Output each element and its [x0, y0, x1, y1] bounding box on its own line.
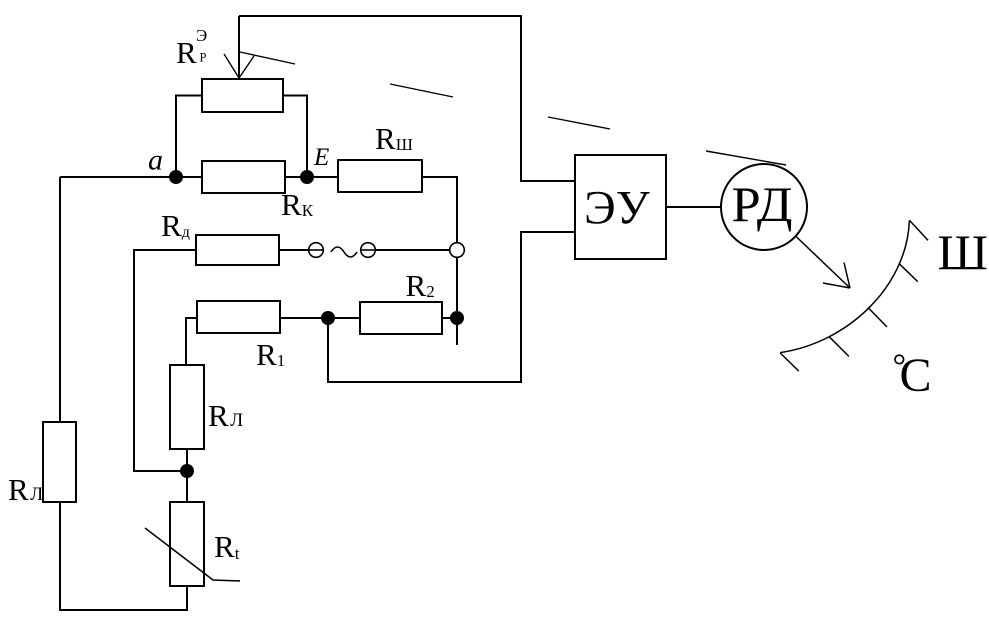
svg-text:RЛ: RЛ [8, 472, 43, 507]
svg-text:a: a [148, 144, 163, 177]
pointer arrow from RD to scale [795, 236, 850, 289]
wire: RP right lead to node E [283, 96, 307, 178]
wire: RL bottom to Rt top [186, 449, 188, 502]
AC source terminal circle 2 [361, 243, 376, 258]
wire: Rt bottom to left leg [60, 502, 187, 610]
wire: R1 left lead down to RL [186, 318, 197, 365]
wire: R1 right to junction [280, 317, 328, 319]
svg-text:Р: Р [200, 51, 207, 65]
node E junction dot [300, 170, 314, 184]
junction dot R1-R2 [321, 311, 335, 325]
wire: junction down and right to EU lower input [328, 232, 575, 382]
thermistor diagonal stroke [145, 528, 240, 581]
svg-text:RШ: RШ [375, 121, 413, 156]
wire: RSh right down to AC node [422, 177, 457, 243]
resistor RL (vertical) [170, 365, 204, 449]
resistor RP (potentiometer body) [202, 79, 283, 112]
scale arc of indicator [780, 220, 909, 352]
scale tick 3 [868, 308, 887, 328]
wire: wiper to EU upper input (top feedback) [239, 16, 575, 181]
AC source tilde [331, 247, 357, 257]
wire: bridge row left (node a) [60, 176, 202, 178]
svg-text:РД: РД [732, 176, 793, 232]
svg-text:R1: R1 [256, 337, 285, 372]
junction dot right of R2 [450, 311, 464, 325]
wire: AC source to node circle [375, 249, 449, 251]
svg-text:E: E [313, 144, 329, 171]
resistor Rt (thermistor body) [170, 502, 204, 586]
wiper arrow on potentiometer [224, 54, 254, 78]
svg-text:ЭУ: ЭУ [584, 182, 650, 235]
svg-text:Rt: Rt [214, 529, 240, 564]
AC source terminal circle 1 [309, 243, 324, 258]
resistor Rd [196, 235, 279, 265]
wire: left leg vertical from node a to RL2 [59, 177, 61, 422]
node a junction dot [169, 170, 183, 184]
svg-text:R2: R2 [406, 268, 435, 303]
junction dot RL-Rt [180, 464, 194, 478]
svg-text:RЛ: RЛ [208, 398, 243, 433]
scale tick 4 [830, 337, 849, 356]
label RP with superscript E and subscript P [176, 26, 207, 70]
svg-text:Rд: Rд [161, 208, 190, 243]
wire: EU output to RD motor [666, 206, 721, 208]
wire: vertical below AC node circle [456, 257, 458, 345]
wire: Rd right lead to AC source [279, 249, 309, 251]
svg-text:Э: Э [196, 26, 207, 45]
RD motor circle M1 [721, 164, 807, 250]
wire: RK right to RSh (through node E) [285, 176, 338, 178]
scale tick 2 [899, 264, 918, 282]
wire: wiper lead vertical [238, 16, 240, 78]
resistor R2 [360, 302, 442, 334]
wire: Rd left lead down to node between RL and Rt [134, 250, 196, 471]
svg-text:С: С [900, 349, 932, 402]
EU amplifier box U1 [575, 155, 666, 259]
resistor RK [202, 161, 285, 193]
svg-text:R: R [176, 35, 197, 70]
mechanical link dashed line from RD to wiper [240, 52, 786, 165]
wire: junction to R2 [328, 317, 360, 319]
svg-text:RК: RК [281, 187, 314, 222]
scale tick 1 [909, 220, 928, 240]
open circle node on vertical [450, 243, 465, 258]
resistor R1 [197, 301, 280, 333]
wire: RP left lead to node a [176, 96, 202, 178]
svg-text:Ш: Ш [938, 224, 988, 280]
resistor RL2 (left vertical) [43, 422, 76, 502]
wire: R2 right to node [442, 317, 457, 319]
scale tick 5 [780, 353, 799, 371]
resistor RSh [338, 160, 422, 192]
